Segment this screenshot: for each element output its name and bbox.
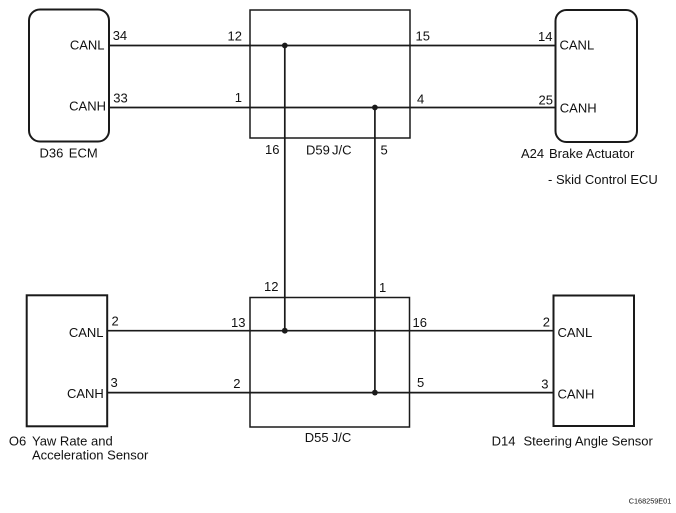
svg-text:CANH: CANH — [558, 387, 595, 402]
svg-text:Yaw Rate and: Yaw Rate and — [32, 434, 113, 449]
svg-text:16: 16 — [413, 315, 427, 330]
svg-text:Brake Actuator: Brake Actuator — [549, 146, 635, 161]
svg-text:1: 1 — [379, 280, 386, 295]
svg-text:CANL: CANL — [70, 38, 105, 53]
svg-text:12: 12 — [228, 29, 242, 44]
svg-text:O6: O6 — [9, 434, 26, 449]
svg-text:Acceleration Sensor: Acceleration Sensor — [32, 448, 149, 463]
svg-text:D59: D59 — [306, 143, 330, 158]
svg-text:5: 5 — [417, 375, 424, 390]
svg-text:5: 5 — [381, 143, 388, 158]
svg-text:Steering Angle Sensor: Steering Angle Sensor — [524, 434, 654, 449]
svg-text:12: 12 — [264, 279, 278, 294]
svg-text:34: 34 — [113, 28, 127, 43]
svg-text:2: 2 — [233, 376, 240, 391]
svg-text:CANL: CANL — [560, 38, 595, 53]
svg-text:ECM: ECM — [69, 146, 98, 161]
svg-text:J/C: J/C — [332, 143, 352, 158]
svg-text:3: 3 — [541, 377, 548, 392]
svg-text:- Skid Control ECU: - Skid Control ECU — [548, 172, 658, 187]
svg-text:4: 4 — [417, 92, 424, 107]
svg-text:C168259E01: C168259E01 — [629, 496, 672, 505]
svg-text:CANH: CANH — [69, 98, 106, 113]
svg-text:3: 3 — [111, 375, 118, 390]
svg-text:16: 16 — [265, 142, 279, 157]
svg-text:25: 25 — [539, 93, 553, 108]
svg-text:15: 15 — [416, 29, 430, 44]
svg-text:A24: A24 — [521, 146, 544, 161]
svg-text:13: 13 — [231, 315, 245, 330]
svg-text:CANH: CANH — [560, 100, 597, 115]
svg-text:D55: D55 — [305, 430, 329, 445]
svg-text:33: 33 — [113, 90, 127, 105]
svg-text:2: 2 — [543, 315, 550, 330]
svg-text:2: 2 — [112, 314, 119, 329]
svg-text:14: 14 — [538, 29, 552, 44]
svg-text:1: 1 — [235, 90, 242, 105]
svg-text:CANL: CANL — [69, 325, 104, 340]
svg-text:CANL: CANL — [558, 325, 593, 340]
svg-text:J/C: J/C — [332, 430, 352, 445]
svg-text:D14: D14 — [492, 434, 516, 449]
svg-text:D36: D36 — [40, 146, 64, 161]
svg-text:CANH: CANH — [67, 386, 104, 401]
